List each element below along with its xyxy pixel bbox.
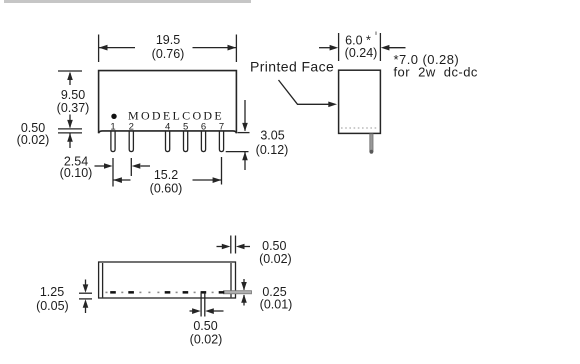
dimension 19.5 (0.76) width	[99, 35, 237, 63]
dimension 9.50 (0.37) height	[58, 71, 82, 128]
svg-text:1.25: 1.25	[40, 285, 64, 299]
dimension 3.05 (0.12) lead length	[226, 100, 250, 170]
pin number 1	[110, 121, 115, 132]
pin number 5	[183, 121, 188, 132]
svg-text:MODELCODE: MODELCODE	[128, 109, 224, 123]
svg-text:4: 4	[165, 121, 170, 132]
side view pin lead	[370, 134, 374, 154]
pin number 2	[129, 121, 134, 132]
svg-text:(0.02): (0.02)	[17, 133, 50, 147]
pin number 6	[201, 121, 206, 132]
svg-text:(0.10): (0.10)	[60, 166, 93, 180]
dimension 6.0 (0.24) depth	[319, 33, 406, 61]
svg-text:7: 7	[219, 121, 224, 132]
lead cross-section pin 4	[165, 291, 171, 294]
lead cross-section pin 6	[201, 291, 207, 294]
svg-text:1: 1	[110, 121, 115, 132]
svg-text:15.2: 15.2	[154, 168, 178, 182]
svg-text:5: 5	[183, 121, 188, 132]
svg-text:Printed Face: Printed Face	[250, 59, 334, 75]
svg-text:(0.02): (0.02)	[190, 333, 223, 347]
dimension 1.25 (0.05) base height	[79, 280, 92, 314]
pin 7 lead	[219, 131, 223, 152]
svg-text:(0.60): (0.60)	[150, 182, 183, 196]
svg-text:0.50: 0.50	[193, 319, 217, 333]
dimension 0.50 (0.02) wall thickness	[217, 236, 251, 254]
bottom view protruding lead (gray)	[224, 291, 252, 294]
pin 1 lead	[111, 131, 115, 152]
package body side view	[339, 70, 381, 133]
svg-text:(0.37): (0.37)	[57, 101, 90, 115]
Printed Face leader arrow	[279, 80, 338, 107]
dimension 0.25 (0.01) lead thickness	[241, 279, 247, 306]
dimension 15.2 (0.60) lead span	[113, 157, 221, 185]
svg-text:6: 6	[201, 121, 206, 132]
svg-text:9.50: 9.50	[61, 88, 85, 102]
dimension 2.54 (0.10) pitch	[95, 158, 151, 187]
lead cross-section pin 7	[219, 291, 225, 294]
package body front view	[99, 71, 237, 134]
svg-text:(0.05): (0.05)	[36, 299, 69, 313]
pin number 4	[165, 121, 170, 132]
svg-text:(0.24): (0.24)	[345, 46, 378, 60]
pin 5 lead	[184, 131, 188, 152]
pin 4 lead	[166, 131, 170, 152]
svg-text:(0.02): (0.02)	[259, 252, 292, 266]
package bottom view outline	[99, 262, 236, 298]
Printed Face label	[250, 59, 334, 75]
svg-text:3.05: 3.05	[260, 129, 284, 143]
lead cross-section pin 1	[110, 291, 116, 294]
pin number 7	[219, 121, 224, 132]
svg-text:2: 2	[129, 121, 134, 132]
svg-text:(0.76): (0.76)	[152, 47, 185, 61]
pin 2 lead	[129, 131, 133, 152]
svg-text:for 2w dc-dc: for 2w dc-dc	[394, 65, 478, 80]
top gray rule	[4, 0, 251, 3]
dimension 0.50 (0.02) lead width	[190, 293, 224, 317]
lead cross-section pin 2	[128, 291, 134, 294]
svg-text:19.5: 19.5	[156, 33, 180, 47]
dimension 0.50 (0.02) lead thickness ticks	[58, 129, 82, 148]
lead cross-section pin 5	[183, 291, 189, 294]
svg-text:(0.12): (0.12)	[256, 143, 289, 157]
svg-text:(0.01): (0.01)	[260, 298, 293, 312]
note *7.0 (0.28) for 2w dc-dc	[394, 52, 478, 80]
bottom view center line dots	[106, 292, 231, 294]
pin 6 lead	[201, 131, 205, 152]
MODELCODE label	[128, 109, 224, 123]
pin 1 marker dot	[111, 114, 116, 119]
